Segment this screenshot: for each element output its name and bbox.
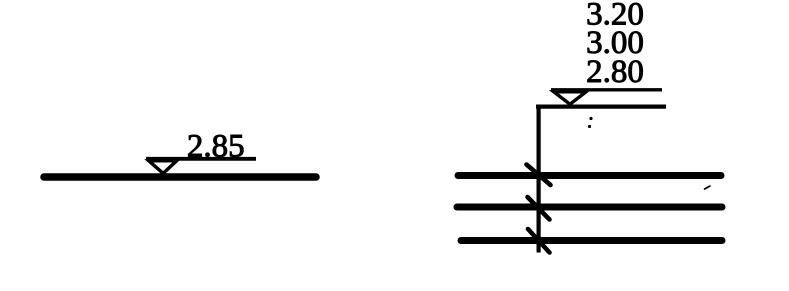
layer line 2 bbox=[457, 204, 722, 211]
svg-text:2.85: 2.85 bbox=[187, 129, 245, 165]
layer line 1 bbox=[458, 172, 721, 179]
left ground line bbox=[44, 173, 316, 181]
right level mark shelf line bbox=[551, 88, 662, 91]
speck dot upper bbox=[589, 117, 592, 120]
right top horizontal line bbox=[536, 104, 666, 108]
left level mark shelf line bbox=[146, 157, 256, 161]
speck slash near layer line 1 bbox=[705, 186, 711, 189]
tick at crossing 3 bbox=[528, 229, 550, 253]
speck dot lower bbox=[588, 125, 591, 128]
vertical staff line bbox=[536, 105, 540, 253]
right level mark triangle bbox=[554, 92, 586, 104]
layer line 3 bbox=[461, 237, 722, 244]
tick at crossing 1 bbox=[527, 165, 551, 186]
left level mark triangle bbox=[149, 161, 177, 174]
svg-text:2.80: 2.80 bbox=[586, 54, 644, 90]
tick at crossing 2 bbox=[528, 197, 550, 220]
